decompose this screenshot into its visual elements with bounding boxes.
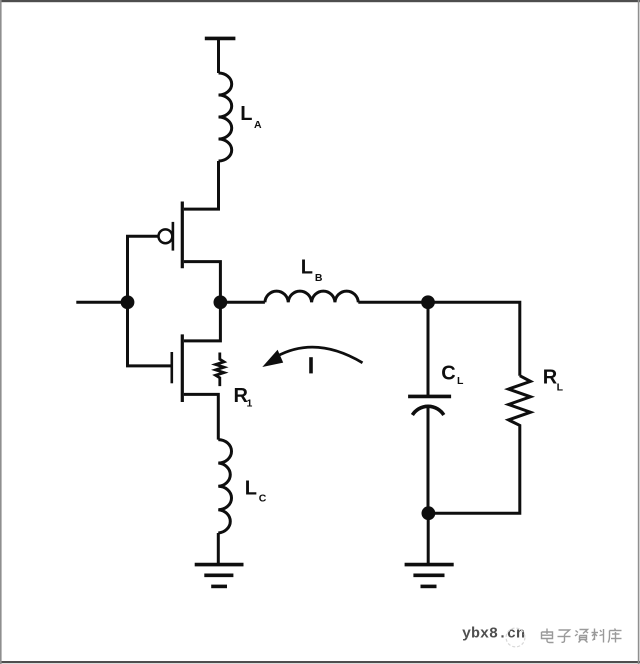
svg-text:R: R — [543, 366, 558, 388]
svg-text:ybx8.cn: ybx8.cn — [462, 626, 525, 643]
svg-text:L: L — [245, 478, 257, 500]
svg-text:C: C — [441, 362, 455, 384]
svg-text:L: L — [557, 381, 564, 393]
svg-text:A: A — [254, 119, 262, 131]
svg-text:B: B — [315, 272, 323, 284]
svg-text:L: L — [457, 375, 464, 387]
svg-text:L: L — [240, 103, 252, 125]
svg-text:L: L — [301, 256, 313, 278]
svg-text:C: C — [259, 492, 267, 504]
svg-text:1: 1 — [247, 398, 253, 410]
